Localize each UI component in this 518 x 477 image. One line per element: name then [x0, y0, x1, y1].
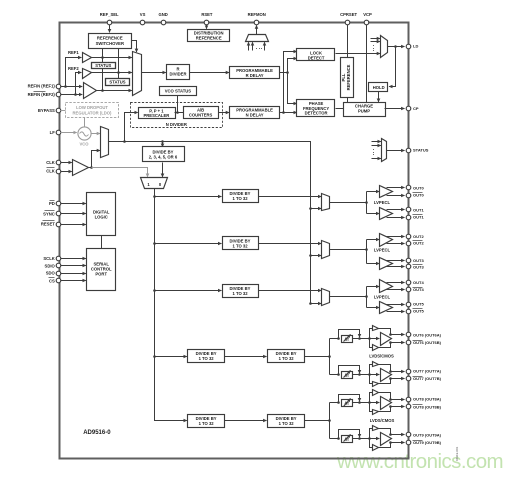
pin OUT2	[406, 234, 411, 239]
svg-text:OUT7 (OUT7B): OUT7 (OUT7B)	[413, 376, 442, 381]
wire REF1 buffer to mux	[92, 57, 132, 59]
block DIVIDE BY 1 TO 32 (row4 b)	[268, 350, 305, 363]
pin LD	[406, 44, 411, 49]
node driver output OUT7-bar	[389, 377, 392, 380]
pin GND	[161, 20, 166, 25]
block DIVIDE BY 1 TO 32 (row4 a)	[188, 350, 225, 363]
wire fan to out8 and out9 paths	[329, 403, 331, 439]
svg-text:1 TO 32: 1 TO 32	[199, 421, 215, 426]
block PLL REFERENCE (vertical)	[341, 58, 354, 98]
wire STATUS mux to STATUS pin	[387, 150, 405, 152]
wire HOLD to charge pump	[378, 92, 380, 102]
pin SYNC-bar	[56, 211, 61, 216]
svg-text:REF1: REF1	[68, 50, 79, 55]
wire CMOS A output rail OUT8	[379, 393, 391, 400]
svg-text:SWITCHOVER: SWITCHOVER	[96, 41, 124, 46]
svg-text:OUT0: OUT0	[413, 193, 424, 198]
wire divide 2-6 to 1/0 mux	[162, 163, 164, 177]
block LOW DROPOUT REGULATOR (LDO)	[66, 103, 119, 118]
wire driver to OUT4-bar	[387, 289, 405, 291]
wire REF2 input	[61, 94, 76, 96]
wire div2 to mux2	[259, 243, 322, 245]
wire driver to OUT5	[387, 304, 405, 306]
node bus to mux1	[309, 207, 312, 210]
svg-text:OUT3: OUT3	[413, 258, 424, 263]
wire CS to serial port	[61, 280, 86, 282]
svg-text:REFERENCE: REFERENCE	[346, 64, 351, 90]
wire REFIN-bar to diff buffer bottom	[76, 94, 83, 96]
wire refmon mux to REFMON pin	[256, 25, 258, 34]
node driver OUT8 input	[368, 401, 371, 404]
wire div5a to div5b	[225, 420, 267, 422]
svg-text:OUT6 (OUT6A): OUT6 (OUT6A)	[413, 332, 442, 337]
pin RSET	[204, 20, 209, 25]
svg-text:LVDS/CMOS: LVDS/CMOS	[369, 354, 394, 359]
wire div1 to mux1	[259, 196, 322, 198]
pin SDIO	[56, 263, 61, 268]
wire delay to driver OUT8	[353, 402, 380, 404]
pin OUT9-bar (OUT9B)	[406, 440, 411, 445]
wire VCO to clock mux	[91, 133, 101, 135]
block LOCK DETECT	[297, 49, 335, 61]
node R delay junction	[286, 71, 289, 74]
svg-text:1 TO 32: 1 TO 32	[232, 196, 248, 201]
svg-text:LVPECL: LVPECL	[374, 295, 391, 300]
pin LF	[56, 130, 61, 135]
pin REFIN (REF1)	[56, 84, 61, 89]
svg-text:www.cntronics.com: www.cntronics.com	[336, 450, 503, 473]
node driver OUT7 input	[368, 373, 371, 376]
svg-text:LOW DROPOUT: LOW DROPOUT	[76, 105, 108, 110]
pin CLK-bar	[56, 169, 61, 174]
wire driver to OUT3-bar	[387, 266, 405, 268]
node bus to mux3	[309, 302, 312, 305]
mux REFMON	[246, 35, 269, 42]
wire fan to driver OUT3	[367, 263, 380, 265]
wire BYPASS to LDO	[61, 110, 66, 112]
node on REF2 input	[74, 93, 77, 96]
pin STATUS	[406, 148, 411, 153]
pin BYPASS	[56, 108, 61, 113]
node fan OUT0/OUT1	[365, 201, 368, 204]
driver OUT3 (LVPECL)	[380, 258, 393, 270]
svg-text:VCO STATUS: VCO STATUS	[165, 89, 192, 94]
buffer REFIN differential	[84, 83, 97, 99]
wire driver to OUT8	[391, 399, 405, 401]
svg-text:RSET: RSET	[201, 12, 213, 17]
wire REF1 input	[61, 86, 66, 88]
block DIVIDE BY 1 TO 32 (row2)	[223, 237, 259, 250]
wire fan vertical	[366, 287, 368, 308]
svg-text:REF_SEL: REF_SEL	[100, 12, 119, 17]
oscillator VCO	[78, 127, 91, 140]
wire LD mux to LD pin	[388, 46, 405, 48]
wire fan to driver OUT5	[367, 307, 380, 309]
svg-text:SDIO: SDIO	[45, 263, 56, 268]
svg-text:PD: PD	[49, 201, 55, 206]
wire row3 to divider	[155, 290, 222, 292]
svg-text:CP: CP	[413, 106, 419, 111]
svg-text:BYPASS: BYPASS	[38, 108, 55, 113]
buffer CLK input	[73, 160, 89, 176]
svg-text:OUT3: OUT3	[413, 265, 424, 270]
svg-text:REGULATOR (LDO): REGULATOR (LDO)	[73, 110, 113, 115]
block P, P + 1 PRESCALER	[139, 108, 176, 119]
svg-text:REFMON: REFMON	[248, 12, 266, 17]
svg-text:PRESCALER: PRESCALER	[143, 113, 169, 118]
svg-text:N DELAY: N DELAY	[246, 113, 264, 118]
svg-text:2, 3, 4, 5, OR 6: 2, 3, 4, 5, OR 6	[149, 155, 178, 160]
node VCO status junction	[176, 111, 179, 114]
pin SDO	[56, 271, 61, 276]
wire fan vertical	[366, 240, 368, 264]
svg-text:N DIVIDER: N DIVIDER	[166, 122, 187, 127]
svg-text:OUT5: OUT5	[413, 302, 424, 307]
pin REFMON	[254, 20, 259, 25]
svg-text:DIVIDER: DIVIDER	[170, 72, 187, 77]
wire CLK to buffer	[61, 162, 72, 164]
node out8/9 fan	[328, 419, 331, 422]
wire driver to OUT0-bar	[387, 195, 405, 197]
pin OUT5	[406, 302, 411, 307]
pin OUT7-bar (OUT7B)	[406, 376, 411, 381]
driver OUT5 (LVPECL)	[380, 302, 393, 314]
wire CPRSET segment to charge pump	[347, 98, 349, 103]
STATUS mux dashed dots	[373, 149, 374, 150]
refmon mux dashed dots	[256, 48, 257, 49]
wire CMOS driver rail OUT7	[370, 365, 373, 384]
block PHASE FREQUENCY DETECTOR	[297, 100, 335, 117]
wire SDIO to serial port	[61, 265, 86, 267]
node driver OUT9 input	[368, 437, 371, 440]
svg-text:OUT9 (OUT9A): OUT9 (OUT9A)	[413, 432, 442, 437]
wire row1 to divider	[155, 196, 222, 198]
node delay OUT6 output	[358, 337, 361, 340]
node bus row1	[153, 195, 156, 198]
node driver output OUT9	[389, 433, 392, 436]
wire RSET to distribution reference	[206, 25, 208, 29]
wire CMOS B output rail OUT7	[379, 379, 391, 384]
wire VCO status tap	[177, 96, 179, 113]
wire tap to divide 2-6	[162, 142, 164, 147]
wire driver to OUT4	[387, 282, 405, 284]
wire driver to OUT6	[391, 334, 405, 336]
svg-text:CLK: CLK	[46, 169, 55, 174]
wire LDO to VCO	[84, 118, 86, 127]
pin VS	[140, 20, 145, 25]
svg-text:STATUS: STATUS	[109, 80, 125, 85]
block DIVIDE BY 1 TO 32 (row1)	[223, 190, 259, 203]
wire N delay to lock detect	[284, 52, 297, 113]
block DIVIDE BY 2,3,4,5 OR 6	[143, 147, 185, 162]
wire driver to OUT9-bar	[391, 442, 405, 444]
svg-text:LVPECL: LVPECL	[374, 200, 391, 205]
driver OUT1 (LVPECL)	[380, 208, 393, 220]
block REFERENCE SWITCHOVER	[89, 34, 132, 49]
node driver output OUT7	[389, 370, 392, 373]
svg-text:PORT: PORT	[95, 272, 107, 277]
delay adjust arrow OUT7	[344, 371, 351, 378]
mux reference select	[133, 52, 142, 96]
node delay OUT8 input	[337, 401, 340, 404]
pin SCLK	[56, 256, 61, 261]
node divide2-6 tap	[161, 140, 164, 143]
node feedback tap	[123, 140, 126, 143]
wire A/B counters to N delay	[219, 112, 230, 114]
driver OUT9 LVDS	[381, 433, 392, 446]
wire switchover sense line 1	[102, 49, 104, 63]
wire R delay to lock detect / PFD	[280, 72, 288, 74]
svg-text:R DELAY: R DELAY	[246, 73, 264, 78]
wire row4 to divider	[155, 356, 187, 358]
block STATUS (REF1)	[92, 63, 116, 69]
mux OUT0/OUT1 select	[322, 194, 330, 211]
wire delay to driver OUT9	[353, 438, 380, 440]
node bus to mux2	[309, 254, 312, 257]
divider N DIVIDER (dashed)	[131, 103, 223, 128]
block STATUS (REF2)	[106, 79, 130, 86]
node driver output OUT9-bar	[389, 441, 392, 444]
wire driver to OUT2	[387, 236, 405, 238]
wire CLK-bar to buffer	[61, 171, 72, 173]
svg-text:Δt: Δt	[344, 373, 349, 378]
svg-text:SCLK: SCLK	[43, 256, 54, 261]
svg-text:STATUS: STATUS	[95, 63, 111, 68]
pin VCP	[364, 20, 369, 25]
svg-text:OUT8 (OUT8B): OUT8 (OUT8B)	[413, 404, 442, 409]
driver OUT9 CMOS B	[373, 445, 379, 451]
wire digital logic to serial port	[101, 236, 103, 249]
wire REFIN to diff buffer top	[66, 86, 83, 88]
pin CP	[406, 106, 411, 111]
buffer REF2	[83, 69, 92, 79]
wire delay bypass loop OUT8	[339, 395, 360, 403]
block A/B COUNTERS	[184, 107, 219, 119]
pin REFIN-bar (REF2)	[56, 92, 61, 97]
mux STATUS	[382, 139, 387, 162]
wire mux1 to fan	[330, 202, 367, 204]
node on diff wire	[101, 89, 104, 92]
wire fan to out6 and out7 paths	[329, 339, 331, 375]
block DIVIDE BY 1 TO 32 (row3)	[223, 285, 259, 298]
buffer REF1	[83, 53, 92, 63]
pin OUT0	[406, 185, 411, 190]
node driver OUT6 input	[368, 337, 371, 340]
wire div5b to out8/9 fan	[305, 420, 330, 422]
svg-text:1 TO 32: 1 TO 32	[232, 291, 248, 296]
pin OUT6 (OUT6A)	[406, 332, 411, 337]
wire CMOS B output rail OUT9	[379, 443, 391, 448]
block DIGITAL LOGIC	[87, 193, 116, 236]
wire N delay to PFD	[280, 112, 297, 114]
pin OUT0-bar	[406, 193, 411, 198]
driver OUT4 (LVPECL)	[380, 280, 393, 293]
svg-text:DETECTOR: DETECTOR	[305, 111, 328, 116]
pin CS-bar	[56, 278, 61, 283]
svg-text:OUT4: OUT4	[413, 280, 424, 285]
pin CLK	[56, 160, 61, 165]
wire fan to driver OUT2	[367, 239, 380, 241]
svg-text:1 TO 32: 1 TO 32	[199, 356, 215, 361]
node bus row2	[153, 242, 156, 245]
wire driver to OUT7-bar	[391, 378, 405, 380]
wire row2 to divider	[155, 243, 222, 245]
block HOLD	[369, 83, 388, 92]
wire 1/0 mux output	[154, 189, 156, 197]
pin OUT2-bar	[406, 241, 411, 246]
wire diff buffer to mux	[97, 90, 132, 92]
pin OUT1-bar	[406, 215, 411, 220]
node out6/7 fan	[328, 355, 331, 358]
svg-text:LF: LF	[50, 130, 56, 135]
wire main distribution bus	[310, 143, 312, 304]
svg-text:CPRSET: CPRSET	[340, 12, 357, 17]
svg-text:1 TO 32: 1 TO 32	[279, 356, 295, 361]
svg-text:OUT8 (OUT8A): OUT8 (OUT8A)	[413, 397, 442, 402]
wire div4b to out6/7 fan	[305, 356, 330, 358]
wire switchover sense line 2	[118, 49, 120, 79]
svg-text:PUMP: PUMP	[358, 109, 370, 114]
wire div4a to div4b	[225, 356, 267, 358]
pin OUT4-bar	[406, 287, 411, 292]
driver OUT0 (LVPECL)	[380, 186, 393, 198]
block CHARGE PUMP	[344, 103, 386, 117]
wire CLK buffer to clock mux	[89, 151, 101, 168]
wire CMOS B output rail OUT6	[379, 343, 391, 348]
delay adjust arrow OUT9	[344, 435, 351, 442]
pin OUT4	[406, 280, 411, 285]
svg-text:OUT7 (OUT7A): OUT7 (OUT7A)	[413, 369, 442, 374]
node CLK buffer output	[90, 166, 93, 169]
svg-text:OUT2: OUT2	[413, 234, 424, 239]
wire CMOS B output rail OUT8	[379, 407, 391, 412]
node delay OUT6 input	[337, 337, 340, 340]
driver OUT7 CMOS B	[373, 382, 379, 387]
wire PFD to charge pump	[336, 108, 344, 110]
svg-text:OUT5: OUT5	[413, 309, 424, 314]
svg-text:SDO: SDO	[46, 271, 56, 276]
wire feedback to prescaler	[125, 113, 138, 142]
wire delay bypass loop OUT7	[339, 366, 360, 375]
node driver output OUT8-bar	[389, 405, 392, 408]
node delay OUT9 input	[337, 437, 340, 440]
svg-text:DETECT: DETECT	[308, 55, 325, 60]
wire VCP down to charge pump	[366, 25, 368, 103]
node delay OUT8 output	[358, 401, 361, 404]
wire delay bypass loop OUT9	[339, 430, 360, 439]
wire charge pump to CP pin	[385, 108, 405, 110]
pin OUT9 (OUT9A)	[406, 432, 411, 437]
wire switchover to ref mux select	[132, 41, 137, 53]
svg-text:LVPECL: LVPECL	[374, 247, 391, 252]
svg-text:OUT0: OUT0	[413, 185, 424, 190]
wire ref mux to R divider	[142, 72, 166, 74]
wire driver to OUT9	[391, 434, 405, 436]
wire delay to driver OUT7	[353, 374, 380, 376]
wire REF_SEL to reference switchover	[109, 25, 111, 33]
wire driver to OUT2-bar	[387, 243, 405, 245]
wire CMOS A output rail OUT6	[379, 329, 391, 335]
wire PD to digital logic	[61, 203, 86, 205]
wire driver to OUT8-bar	[391, 406, 405, 408]
wire driver to OUT7	[391, 371, 405, 373]
LD mux dashed dots	[373, 45, 374, 46]
svg-text:1 TO 32: 1 TO 32	[279, 421, 295, 426]
driver OUT7 LVDS	[381, 369, 392, 382]
svg-text:LD: LD	[413, 44, 418, 49]
wire mux2 to fan	[330, 249, 367, 251]
wire clock mux output	[109, 142, 311, 145]
wire LD junction to HOLD	[389, 47, 395, 87]
node delay OUT7 output	[358, 373, 361, 376]
delay adjust block OUT7	[342, 372, 353, 379]
node delay OUT7 input	[337, 373, 340, 376]
node driver output OUT8	[389, 398, 392, 401]
wire driver to OUT3	[387, 260, 405, 262]
pin OUT1	[406, 207, 411, 212]
svg-text:SYNC: SYNC	[43, 211, 55, 216]
svg-text:STATUS: STATUS	[413, 148, 429, 153]
node bus row4	[153, 355, 156, 358]
block VCO STATUS	[160, 87, 197, 96]
wire CMOS driver rail OUT6	[370, 329, 373, 348]
mux VCO/CLK select	[101, 127, 109, 158]
driver OUT8 CMOS B	[373, 410, 379, 415]
STATUS mux stub arrows	[372, 141, 381, 143]
wire delay bypass loop OUT6	[339, 330, 360, 339]
node bus row3	[153, 289, 156, 292]
driver OUT6 CMOS B	[373, 345, 379, 351]
svg-text:LVDS/CMOS: LVDS/CMOS	[370, 418, 395, 423]
svg-text:REFERENCE: REFERENCE	[196, 35, 222, 40]
delay adjust arrow OUT6	[344, 335, 351, 342]
wire R divider to R delay	[190, 72, 230, 74]
chip outline AD9516-0	[60, 23, 409, 459]
block DIVIDE BY 1 TO 32 (row5 b)	[268, 415, 305, 428]
mux 1/0 select	[141, 178, 168, 189]
refmon mux input arrows	[248, 42, 250, 50]
svg-text:VCP: VCP	[363, 12, 372, 17]
wire mux3 to fan	[330, 296, 367, 298]
wire fan to driver OUT0	[367, 191, 380, 193]
wire divider distribution bus	[155, 197, 187, 421]
driver OUT2 (LVPECL)	[380, 234, 393, 247]
svg-text:HOLD: HOLD	[373, 85, 385, 90]
node driver output OUT6	[389, 333, 392, 336]
svg-text:COUNTERS: COUNTERS	[189, 113, 213, 118]
pin OUT3	[406, 258, 411, 263]
wire CPRSET down to PLL reference	[347, 25, 349, 58]
svg-text:LOGIC: LOGIC	[95, 215, 108, 220]
svg-text:VS: VS	[140, 12, 146, 17]
block DISTRIBUTION REFERENCE	[188, 30, 230, 42]
delay adjust block OUT9	[342, 436, 353, 443]
pin CPRSET	[345, 20, 350, 25]
svg-text:OUT2: OUT2	[413, 241, 424, 246]
delay adjust block OUT8	[342, 400, 353, 407]
node on REF2 wire	[117, 71, 120, 74]
node fan OUT2/OUT3	[365, 248, 368, 251]
mux LD	[381, 36, 388, 58]
driver OUT8 LVDS	[381, 397, 392, 410]
node on REF1 input	[64, 85, 67, 88]
driver OUT7 CMOS A	[373, 362, 379, 367]
svg-text:OUT1: OUT1	[413, 207, 424, 212]
node fan OUT4/OUT5	[365, 295, 368, 298]
driver OUT9 CMOS A	[373, 426, 379, 431]
wire SCLK to serial port	[61, 258, 86, 260]
wire CMOS driver rail OUT9	[370, 429, 373, 448]
